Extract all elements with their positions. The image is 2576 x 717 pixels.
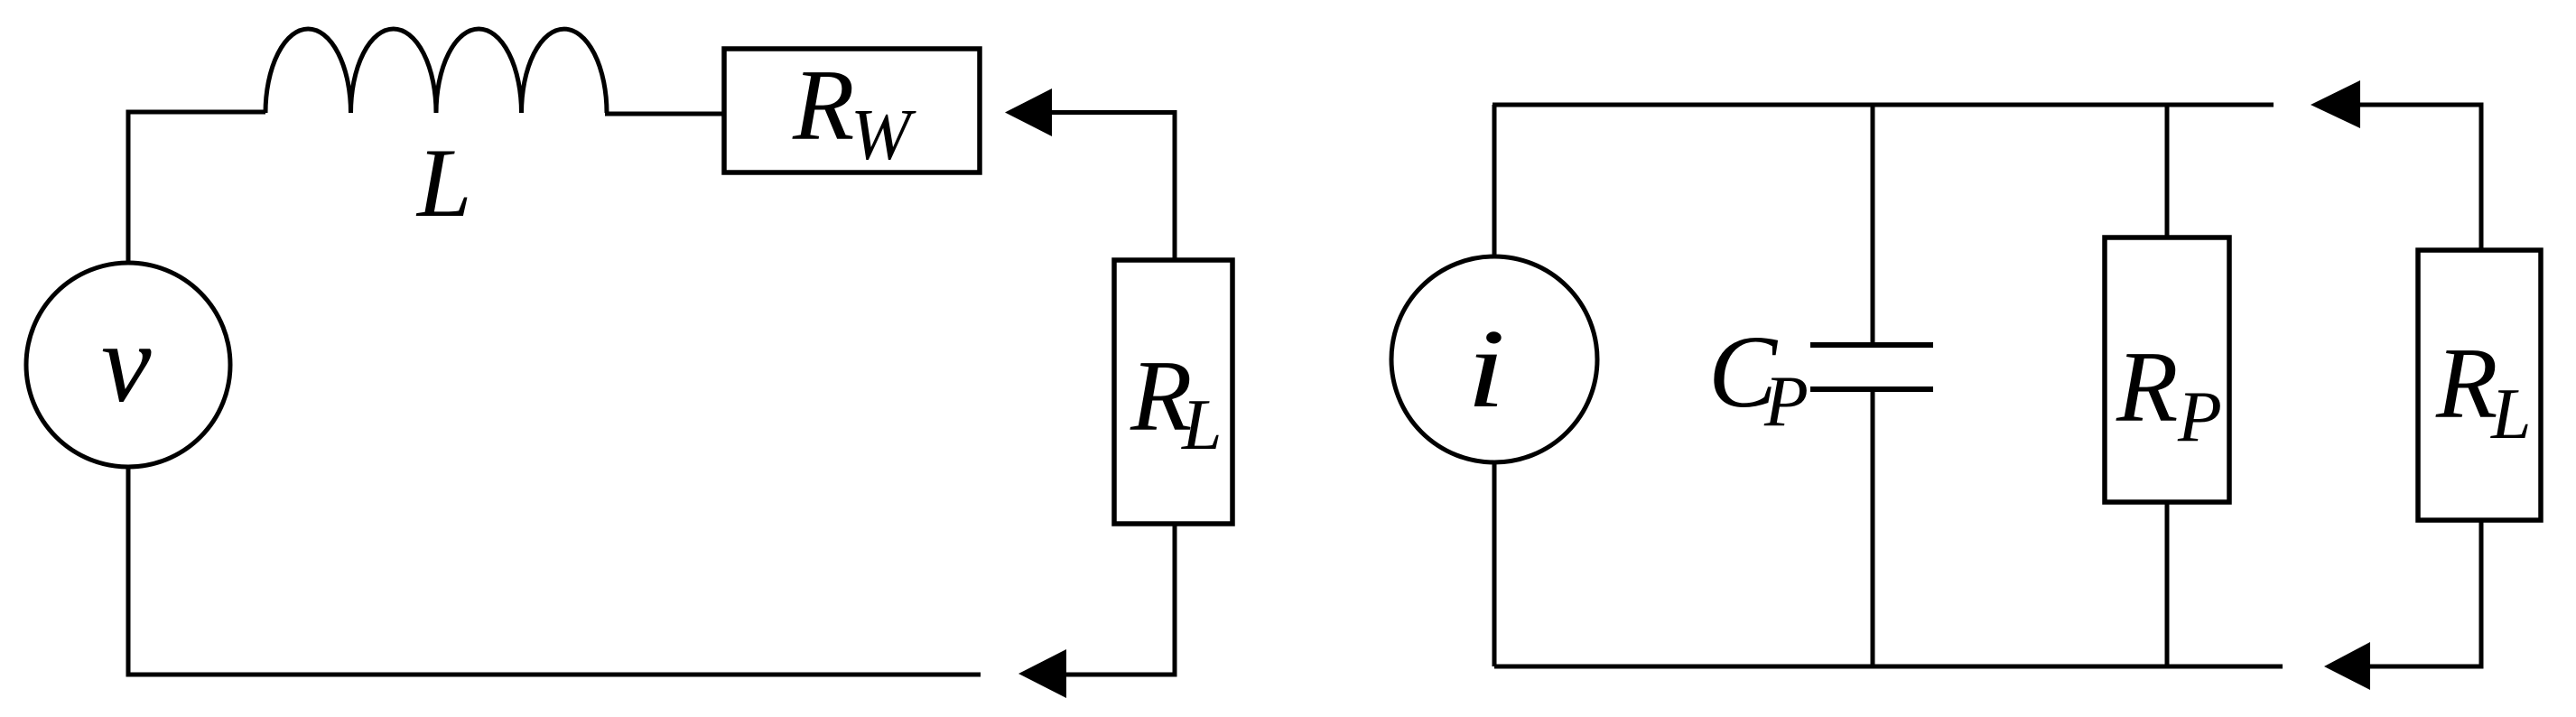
inductor L	[265, 29, 607, 113]
arrow top (right circuit)	[2311, 80, 2360, 128]
wire below RL	[1066, 524, 1175, 675]
svg-text:P: P	[1763, 362, 1809, 442]
resistor RP	[2105, 237, 2229, 502]
resistor RL (left circuit)	[1114, 260, 1232, 524]
svg-text:i: i	[1466, 306, 1505, 432]
svg-text:L: L	[1181, 386, 1223, 465]
capacitor CP plates	[1810, 342, 1933, 348]
capacitor CP bottom lead	[1871, 389, 1875, 666]
svg-text:v: v	[101, 302, 152, 426]
svg-text:L: L	[2490, 375, 2532, 454]
current source i	[1391, 256, 1597, 462]
wire source top	[1493, 105, 1497, 256]
wire source bottom	[1493, 462, 1497, 666]
capacitor CP top lead	[1871, 105, 1875, 345]
wire inductor to RW	[605, 112, 724, 116]
wire below RL (right circuit)	[2370, 520, 2481, 666]
resistor RL (right circuit)	[2418, 250, 2541, 520]
wire top-right corner (right circuit)	[2359, 105, 2481, 250]
arrow bottom (right circuit)	[2324, 642, 2370, 690]
wire from source top to inductor	[128, 112, 265, 263]
wire top-right corner	[1051, 113, 1175, 261]
arrow bottom (left circuit)	[1018, 649, 1066, 698]
voltage source v	[26, 263, 230, 467]
resistor RW	[724, 49, 980, 172]
resistor RP bottom lead	[2165, 502, 2170, 666]
svg-text:R: R	[2116, 331, 2178, 443]
svg-text:R: R	[792, 50, 854, 162]
svg-text:W: W	[851, 96, 916, 175]
resistor RP top lead	[2165, 105, 2170, 237]
svg-text:L: L	[415, 128, 472, 237]
svg-text:P: P	[2177, 377, 2222, 457]
top wire (right circuit)	[1493, 103, 2274, 107]
arrow into RW (top)	[1005, 88, 1052, 136]
svg-text:R: R	[2435, 328, 2497, 440]
bottom wire and source leg	[128, 467, 981, 675]
bottom wire (right circuit)	[1494, 665, 2283, 669]
